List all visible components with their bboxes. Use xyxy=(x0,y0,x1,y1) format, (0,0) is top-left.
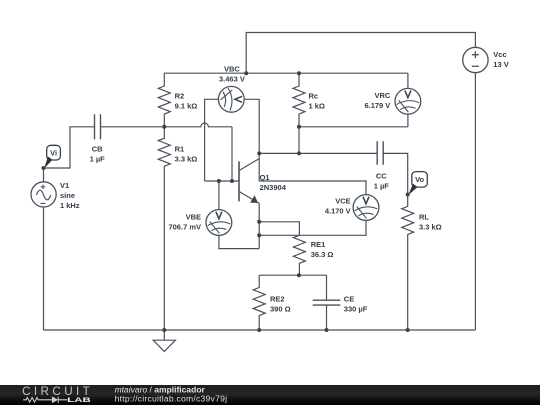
svg-text:330 µF: 330 µF xyxy=(344,305,368,314)
svg-text:706.7 mV: 706.7 mV xyxy=(168,222,201,231)
svg-text:2N3904: 2N3904 xyxy=(260,183,287,192)
svg-text:LAB: LAB xyxy=(67,397,91,404)
svg-text:13 V: 13 V xyxy=(493,60,508,69)
svg-text:RE1: RE1 xyxy=(311,240,326,249)
svg-text:3.463 V: 3.463 V xyxy=(219,74,245,83)
svg-text:3.3 kΩ: 3.3 kΩ xyxy=(419,223,442,232)
svg-text:6.179 V: 6.179 V xyxy=(364,101,390,110)
svg-text:Rc: Rc xyxy=(309,91,319,100)
svg-text:VBC: VBC xyxy=(224,64,240,73)
svg-text:Vo: Vo xyxy=(415,175,424,184)
svg-text:VRC: VRC xyxy=(374,91,390,100)
svg-text:3.3 kΩ: 3.3 kΩ xyxy=(175,155,198,164)
svg-text:http://circuitlab.com/c39v79j: http://circuitlab.com/c39v79j xyxy=(115,394,227,404)
svg-text:CC: CC xyxy=(376,172,387,181)
svg-text:Vi: Vi xyxy=(50,148,57,157)
svg-text:1 µF: 1 µF xyxy=(90,155,106,164)
svg-text:9.1 kΩ: 9.1 kΩ xyxy=(175,101,198,110)
svg-text:VBE: VBE xyxy=(186,212,201,221)
svg-text:CE: CE xyxy=(344,295,354,304)
svg-text:Q1: Q1 xyxy=(260,173,270,182)
svg-text:36.3 Ω: 36.3 Ω xyxy=(311,250,334,259)
svg-text:RE2: RE2 xyxy=(270,295,285,304)
svg-text:RL: RL xyxy=(419,213,429,222)
svg-text:V1: V1 xyxy=(60,181,69,190)
svg-text:R1: R1 xyxy=(175,145,185,154)
svg-text:CB: CB xyxy=(92,145,103,154)
svg-text:VCE: VCE xyxy=(335,197,350,206)
svg-text:sine: sine xyxy=(60,191,75,200)
svg-text:4.170 V: 4.170 V xyxy=(325,207,351,216)
svg-text:1 µF: 1 µF xyxy=(374,182,390,191)
svg-text:1 kΩ: 1 kΩ xyxy=(309,101,325,110)
svg-text:R2: R2 xyxy=(175,91,185,100)
svg-text:Vcc: Vcc xyxy=(493,50,506,59)
svg-text:1 kHz: 1 kHz xyxy=(60,201,80,210)
svg-text:390 Ω: 390 Ω xyxy=(270,305,291,314)
